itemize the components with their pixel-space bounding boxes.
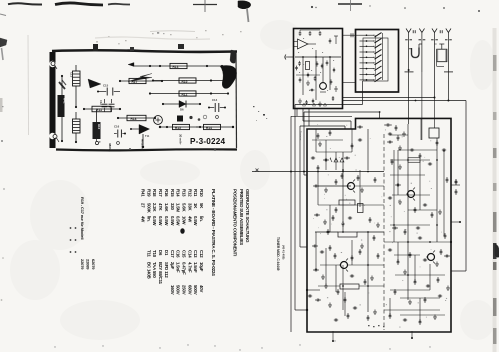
svg-text:0.5W: 0.5W (170, 216, 175, 227)
svg-text:160V: 160V (170, 285, 175, 295)
svg-text:330: 330 (170, 203, 175, 210)
svg-text:C15: C15 (181, 250, 186, 258)
svg-text:0.5W: 0.5W (152, 216, 157, 227)
svg-text:R10: R10 (97, 124, 101, 130)
svg-text:4W: 4W (141, 216, 146, 223)
svg-text:TUNER MOD. C 44449: TUNER MOD. C 44449 (276, 237, 280, 271)
svg-text:(45 41 459): (45 41 459) (282, 245, 286, 259)
svg-text:C17: C17 (170, 250, 175, 258)
svg-text:R12: R12 (187, 189, 192, 197)
svg-text:C16: C16 (176, 250, 181, 258)
svg-text:1.5M: 1.5M (176, 203, 181, 213)
svg-text:C12: C12 (99, 100, 103, 105)
svg-text:380V~: 380V~ (108, 143, 112, 152)
svg-text:R16: R16 (182, 80, 188, 84)
svg-text:R18: R18 (131, 117, 137, 121)
svg-text:R41: R41 (63, 98, 67, 104)
svg-text:R11: R11 (193, 189, 198, 197)
svg-text:500K: 500K (146, 203, 151, 214)
svg-text:Tastatur: Tastatur (299, 131, 303, 140)
svg-text:33K: 33K (187, 203, 192, 211)
svg-text:C14: C14 (187, 250, 192, 258)
svg-text:250V: 250V (181, 285, 186, 295)
svg-text:0.47µF: 0.47µF (181, 262, 186, 275)
svg-text:T11: T11 (145, 134, 150, 138)
svg-text:lin.: lin. (146, 216, 151, 222)
svg-text:47K: 47K (158, 203, 163, 211)
svg-text:40V: 40V (199, 285, 204, 292)
svg-text:lin.: lin. (199, 216, 204, 222)
svg-text:4.7nF: 4.7nF (187, 262, 192, 273)
svg-text:R10: R10 (199, 189, 204, 197)
svg-text:POSIZIONAMENTO COMPONENTI: POSIZIONAMENTO COMPONENTI (233, 189, 238, 256)
svg-text:22089: 22089 (86, 259, 91, 270)
svg-text:BZY 88/C11: BZY 88/C11 (158, 262, 163, 285)
svg-text:R11: R11 (96, 108, 102, 112)
svg-text:D1: D1 (164, 250, 169, 256)
svg-text:R15: R15 (175, 126, 181, 130)
svg-text:R14: R14 (206, 126, 212, 130)
svg-text:C16: C16 (114, 125, 120, 129)
svg-text:R41: R41 (141, 189, 146, 197)
svg-text:C12: C12 (199, 250, 204, 258)
svg-text:C15: C15 (103, 84, 109, 88)
svg-text:22079: 22079 (80, 259, 85, 270)
svg-text:500V: 500V (193, 285, 198, 295)
svg-text:4W: 4W (187, 216, 192, 223)
svg-text:27: 27 (141, 203, 146, 208)
svg-text:R15: R15 (170, 189, 175, 197)
svg-text:500V: 500V (176, 285, 181, 295)
svg-text:TAA 550: TAA 550 (152, 262, 157, 278)
svg-text:2µF: 2µF (170, 262, 175, 270)
svg-text:PLATINE - BOARD - PIASTRA C. S: PLATINE - BOARD - PIASTRA C. S. P3-0224 (211, 189, 216, 276)
svg-text:R13: R13 (173, 65, 179, 69)
svg-text:R16: R16 (164, 189, 169, 197)
svg-text:R13: R13 (181, 189, 186, 197)
svg-text:0.5W: 0.5W (176, 216, 181, 227)
svg-text:10W: 10W (181, 216, 186, 225)
svg-text:D6: D6 (158, 250, 163, 256)
svg-text:30 mA+: 30 mA+ (179, 134, 183, 145)
svg-text:62079: 62079 (91, 259, 96, 270)
svg-text:R19 - C17 nur für Modell: R19 - C17 nur für Modell (80, 197, 85, 239)
svg-text:R19: R19 (146, 189, 151, 197)
svg-text:C13: C13 (193, 250, 198, 258)
svg-text:0.5W: 0.5W (164, 216, 169, 227)
svg-text:0.5W: 0.5W (193, 216, 198, 227)
svg-text:T11: T11 (146, 250, 151, 257)
svg-text:680V: 680V (187, 285, 192, 295)
svg-text:1.6K: 1.6K (164, 203, 169, 213)
svg-text:T10: T10 (152, 250, 157, 258)
svg-text:GEDRUCKTE SCHALTUNG: GEDRUCKTE SCHALTUNG (245, 189, 250, 243)
svg-text:R14: R14 (176, 189, 181, 197)
svg-text:BC 140B: BC 140B (146, 262, 151, 279)
svg-text:SFD 112: SFD 112 (164, 262, 169, 278)
svg-text:C13: C13 (70, 72, 74, 78)
svg-text:C14: C14 (212, 98, 218, 102)
svg-text:P-3-0224: P-3-0224 (190, 137, 226, 146)
svg-text:1.5nF: 1.5nF (193, 262, 198, 273)
svg-text:Heizung: Heizung (141, 139, 145, 151)
svg-text:+: + (98, 141, 102, 143)
svg-text:5.6K: 5.6K (181, 203, 186, 213)
svg-text:D6: D6 (180, 108, 184, 112)
svg-text:R17: R17 (132, 80, 138, 84)
svg-text:R18: R18 (152, 189, 157, 197)
svg-text:PRINTED SUB ASSEMBLIES: PRINTED SUB ASSEMBLIES (239, 189, 244, 245)
svg-text:R17: R17 (158, 189, 163, 197)
svg-text:2.2K: 2.2K (152, 203, 157, 213)
svg-text:R12: R12 (182, 93, 188, 97)
svg-text:1.5nF: 1.5nF (176, 262, 181, 273)
svg-text:10µF: 10µF (199, 262, 204, 272)
svg-text:0.5W: 0.5W (158, 216, 163, 227)
